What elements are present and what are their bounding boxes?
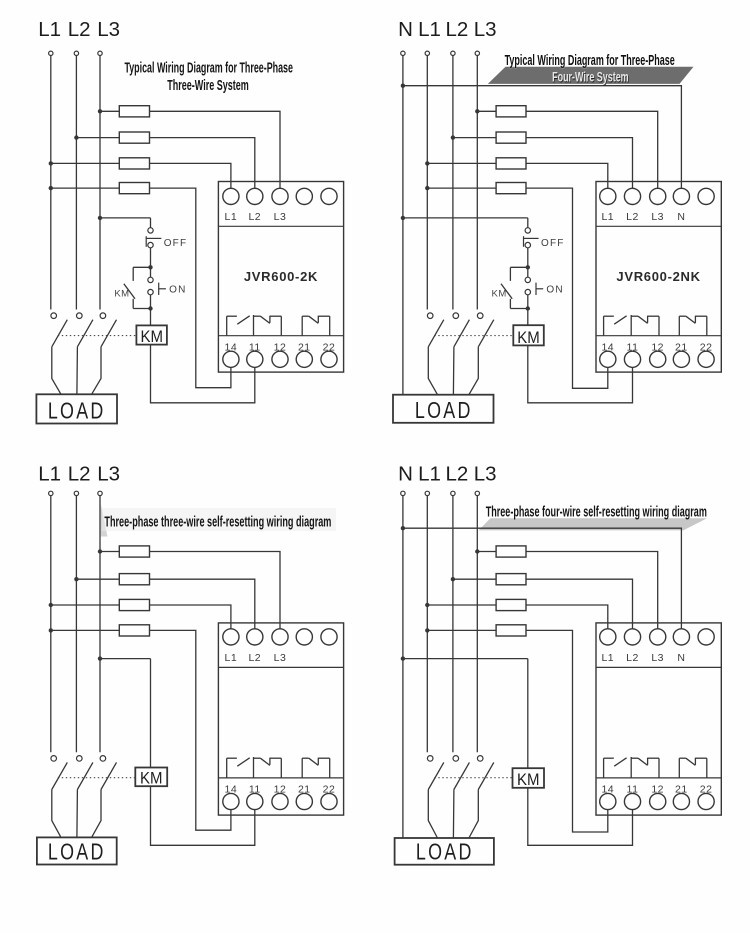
junction fuse F4 tap (D) [425,628,429,632]
auxiliary contact KM (A) [124,267,135,308]
wire pole 3 to load (A) [92,347,101,395]
svg-text:L3: L3 [274,211,287,223]
junction fuse F1 tap (C) [98,549,102,553]
junction parallel top (A) [148,265,152,269]
relay changeover contact 14-11-12 (D) [604,757,659,778]
relay input terminal 3 (D) [650,629,666,645]
relay input terminal 5 (A) [321,188,337,204]
svg-text:Three-phase three-wire self-re: Three-phase three-wire self-resetting wi… [104,515,331,531]
junction fuse F3 tap (C) [49,603,53,607]
relay input terminal 3 (B) [650,188,666,204]
relay input terminal 4 (A) [296,188,312,204]
svg-text:Typical Wiring Diagram for Thr: Typical Wiring Diagram for Three-Phase [124,60,293,76]
relay output terminal 22 (C) [321,793,337,809]
wire control tap down to coil (C) [150,659,152,768]
label supply phases (B) [398,18,497,41]
protection relay body (B) [596,182,721,373]
wire parallel bracket bottom (B) [510,308,527,310]
svg-text:L3: L3 [97,462,120,485]
title shadow wedge quadrant C [101,504,108,537]
wire parallel bracket top (B) [510,266,527,268]
relay divider top (A) [218,225,343,227]
relay contact 21-22 (C) [302,758,330,778]
supply terminal L1 (A) [49,51,53,55]
relay input terminal 2 (B) [624,188,640,204]
title banner quadrant B [488,67,694,84]
wire tap to fuse F2 (C) [76,578,119,580]
fuse F2 (B) [496,132,526,143]
fuse F4 (C) [119,625,149,636]
supply terminal N (D) [401,491,405,495]
supply terminal L3 (B) [475,51,479,55]
relay divider bottom (B) [596,335,721,337]
wire tap to fuse F3 (B) [427,162,496,164]
wire L1 phase line (B) [426,56,428,310]
relay divider bottom (D) [596,777,721,779]
supply terminal L1 (D) [425,491,429,495]
relay input terminal 4 (D) [673,629,689,645]
junction fuse F1 tap (B) [475,109,479,113]
load box (B) [393,395,494,424]
junction control tap (C) [98,656,102,660]
relay output terminal 21 (C) [296,793,312,809]
contactor main contact pole 2 (A) [77,313,93,347]
svg-text:KM: KM [140,328,163,346]
junction parallel bottom (B) [526,306,530,310]
pushbutton ON (A) [148,277,166,295]
supply terminal L2 (C) [74,491,78,495]
fuse F1 (C) [119,546,149,557]
relay input terminal 1 (B) [600,188,616,204]
wire fuse F1 to relay (B) [526,111,658,188]
relay output terminal 21 (D) [673,793,689,809]
svg-text:L2: L2 [68,462,91,485]
fuse F1 (B) [496,106,526,117]
svg-text:L1: L1 [418,18,441,41]
supply terminal N (B) [401,51,405,55]
pushbutton OFF (A) [146,228,161,248]
wire L1 phase line (A) [50,56,52,310]
wire tap to fuse F2 (B) [453,137,496,139]
svg-text:L1: L1 [601,652,614,664]
junction fuse F2 tap (A) [74,135,78,139]
wire N phase line (D) [402,496,404,838]
relay output terminal 22 (B) [698,351,714,367]
junction fuse F3 tap (A) [49,161,53,165]
relay output terminal 21 (A) [296,351,312,367]
svg-text:LOAD: LOAD [48,839,106,865]
relay input terminal 4 (B) [673,188,689,204]
supply terminal L2 (B) [451,51,455,55]
svg-text:L1: L1 [38,18,61,41]
junction fuse F3 tap (B) [425,161,429,165]
fuse F4 (B) [496,183,526,194]
relay output terminal labels (D) [601,784,712,796]
relay input terminal 1 (D) [600,629,616,645]
mechanical link dotted (A) [58,335,137,337]
fuse F3 (B) [496,158,526,169]
svg-text:KM: KM [492,289,507,300]
wire fuse F4 to relay terminal 14 (C) [150,630,231,830]
relay output terminal 11 (C) [247,793,263,809]
relay contact 21-22 (B) [679,316,707,336]
relay changeover contact 14-11-12 (C) [227,757,282,778]
fuse F2 (D) [496,574,526,585]
fuse F3 (D) [496,599,526,610]
supply terminal L2 (D) [451,491,455,495]
svg-text:Four-Wire System: Four-Wire System [552,70,629,86]
fuse F4 (D) [496,625,526,636]
relay divider top (D) [596,666,721,668]
svg-text:L2: L2 [445,462,468,485]
wire pole 3 to load (B) [469,347,478,395]
relay output terminal labels (A) [225,342,336,354]
wire L1 phase line (D) [426,496,428,753]
wire tap to fuse F4 (B) [427,187,496,189]
wire pole 2 to load (A) [76,347,79,395]
relay input terminal 1 (C) [223,629,239,645]
relay output terminal 11 (A) [247,351,263,367]
junction fuse F4 tap (B) [425,186,429,190]
svg-text:LOAD: LOAD [416,839,474,865]
relay input terminal 1 (A) [223,188,239,204]
relay output terminal 12 (B) [650,351,666,367]
contactor main contact pole 3 (D) [477,756,493,790]
wire fuse F3 to relay (B) [526,163,608,188]
relay input terminal labels (A) [225,211,287,223]
wire control tap to coil branch (A) [100,217,151,219]
svg-text:L2: L2 [626,652,639,664]
wire fuse F4 to relay terminal 14 (A) [150,188,231,388]
wire tap to fuse F1 (A) [100,110,119,112]
relay changeover contact 14-11-12 (B) [604,315,659,336]
pushbutton OFF (B) [524,228,539,248]
relay output terminal 11 (B) [624,351,640,367]
wire pole 1 to load (C) [52,790,61,838]
relay input terminal 5 (C) [321,629,337,645]
fuse F4 (A) [119,183,149,194]
svg-text:Three-phase four-wire self-res: Three-phase four-wire self-resetting wir… [486,504,707,520]
relay input terminal 3 (C) [272,629,288,645]
wire parallel bracket bottom (A) [133,308,150,310]
wire L1 phase line (C) [50,496,52,753]
protection relay body (D) [596,623,721,815]
junction control tap (B) [401,216,405,220]
relay contact 21-22 (A) [302,316,330,336]
wire pole 3 to load (C) [92,790,101,838]
wire N to relay terminal N (D) [403,528,682,629]
junction fuse F3 tap (D) [425,603,429,607]
wire tap to fuse F1 (D) [477,551,496,553]
wire fuse F3 to relay (D) [526,605,608,629]
junction N to relay N (D) [401,526,405,530]
svg-text:L1: L1 [225,652,238,664]
wire pole 1 to load (D) [428,790,437,839]
junction fuse F4 tap (C) [49,628,53,632]
svg-text:L1: L1 [418,462,441,485]
wire control tap down to coil (D) [527,659,529,769]
relay output terminal 12 (D) [650,793,666,809]
wire pole 2 to load (D) [452,790,455,839]
wire L2 phase line (A) [75,56,77,310]
wire L2 phase line (D) [452,496,454,753]
contactor main contact pole 2 (B) [453,313,469,347]
wire fuse F2 to relay (B) [526,138,633,189]
load box (C) [37,837,117,865]
relay input terminal labels (D) [601,652,685,664]
svg-text:LOAD: LOAD [415,398,473,424]
wire L3 phase line (D) [476,496,478,753]
svg-text:N: N [398,18,413,41]
junction fuse F1 tap (A) [98,109,102,113]
svg-text:L2: L2 [248,652,261,664]
wire L2 phase line (C) [75,496,77,753]
relay divider top (C) [218,666,343,668]
relay output terminal 22 (A) [321,351,337,367]
contactor coil KM (A) [136,325,167,346]
relay input terminal 5 (D) [698,629,714,645]
relay contact 21-22 (D) [679,758,707,778]
junction N to relay N (B) [401,84,405,88]
junction fuse F4 tap (A) [49,186,53,190]
wire fuse F3 to relay (A) [150,163,231,188]
mechanical link dotted (C) [58,777,136,779]
svg-text:L3: L3 [474,462,497,485]
svg-text:KM: KM [140,770,163,788]
wire pole 1 to load (B) [428,347,437,395]
svg-text:JVR600-2K: JVR600-2K [244,269,318,284]
wire parallel bracket top (A) [133,266,150,268]
supply terminal L3 (D) [475,491,479,495]
title banner quadrant D [479,518,707,530]
wire pole 2 to load (C) [76,790,79,838]
wire tap to fuse F1 (C) [100,551,119,553]
relay input terminal 2 (A) [247,188,263,204]
wire L3 phase line (A) [99,56,101,310]
wire coil to relay terminal 11 (D) [528,788,633,846]
svg-text:N: N [398,462,413,485]
relay divider top (B) [596,225,721,227]
wire tap to fuse F4 (C) [51,629,120,631]
fuse F1 (A) [119,106,149,117]
relay output terminal 11 (D) [624,793,640,809]
junction fuse F2 tap (D) [451,577,455,581]
wire tap to fuse F3 (D) [427,604,496,606]
svg-text:L2: L2 [68,18,91,41]
svg-text:L2: L2 [445,18,468,41]
junction fuse F1 tap (D) [475,549,479,553]
fuse F3 (A) [119,158,149,169]
wire OFF to parallel group (A) [150,248,152,277]
wire down to OFF button (B) [527,218,529,228]
relay divider bottom (A) [218,335,343,337]
load box (D) [395,838,494,865]
relay changeover contact 14-11-12 (A) [227,315,282,336]
relay output terminal 14 (C) [223,793,239,809]
wire control tap to coil branch (B) [403,217,528,219]
svg-text:Typical Wiring Diagram for Thr: Typical Wiring Diagram for Three-Phase [505,53,675,69]
label supply phases (C) [38,462,120,485]
relay input terminal labels (C) [225,652,287,664]
supply terminal L3 (A) [98,51,102,55]
protection relay body (C) [218,623,343,815]
label supply phases (D) [398,462,497,485]
wire tap to fuse F2 (A) [76,137,119,139]
relay output terminal labels (C) [225,784,336,796]
svg-text:N: N [677,211,685,223]
wire pole 3 to load (D) [469,790,478,839]
fuse F2 (C) [119,574,149,585]
load box (A) [36,394,117,424]
wire L2 phase line (B) [452,56,454,310]
relay divider bottom (C) [218,777,343,779]
wire control tap to coil branch (C) [100,658,151,660]
relay input terminal 5 (B) [698,188,714,204]
relay output terminal 12 (A) [272,351,288,367]
svg-text:OFF: OFF [541,238,565,249]
contactor coil KM (B) [513,325,544,347]
auxiliary contact KM (B) [501,267,512,308]
label supply phases (A) [38,18,120,41]
supply terminal L3 (C) [98,491,102,495]
relay output terminal 12 (C) [272,793,288,809]
junction control tap (A) [98,216,102,220]
contactor coil KM (C) [135,768,167,788]
contactor main contact pole 1 (A) [51,313,67,347]
contactor main contact pole 1 (C) [51,756,67,790]
relay input terminal 4 (C) [296,629,312,645]
wire to contactor coil (B) [527,295,529,325]
svg-text:LOAD: LOAD [48,398,106,424]
svg-text:JVR600-2NK: JVR600-2NK [616,269,700,284]
wire coil to relay terminal 11 (C) [151,786,255,845]
svg-text:KM: KM [517,329,540,347]
svg-text:L2: L2 [248,211,261,223]
wire to contactor coil (A) [150,295,152,326]
contactor main contact pole 1 (D) [427,756,443,790]
svg-text:OFF: OFF [164,238,188,249]
wire fuse F1 to relay (D) [526,552,658,629]
wire L3 phase line (B) [476,56,478,310]
contactor main contact pole 2 (D) [453,756,469,790]
wire tap to fuse F3 (C) [51,604,120,606]
wire tap to fuse F1 (B) [477,110,496,112]
relay input terminal 2 (D) [624,629,640,645]
svg-text:L3: L3 [274,652,287,664]
svg-text:KM: KM [114,289,129,300]
relay output terminal labels (B) [601,342,712,354]
relay input terminal 2 (C) [247,629,263,645]
junction parallel bottom (A) [148,306,152,310]
svg-text:L3: L3 [474,18,497,41]
contactor main contact pole 3 (B) [477,313,493,347]
fuse F2 (A) [119,132,149,143]
relay output terminal 14 (A) [223,351,239,367]
relay input terminal labels (B) [601,211,685,223]
wire fuse F3 to relay (C) [150,605,231,629]
svg-text:N: N [677,652,685,664]
mechanical link dotted (D) [434,777,512,779]
wire coil to relay terminal 11 (B) [528,345,633,402]
pushbutton ON (B) [525,277,543,295]
wire fuse F2 to relay (C) [150,579,255,629]
svg-text:L2: L2 [626,211,639,223]
relay output terminal 22 (D) [698,793,714,809]
contactor main contact pole 2 (C) [77,756,93,790]
supply terminal L1 (C) [49,491,53,495]
wire tap to fuse F3 (A) [51,162,120,164]
fuse F1 (D) [496,546,526,557]
svg-text:L1: L1 [38,462,61,485]
svg-text:L1: L1 [601,211,614,223]
relay input terminal 3 (A) [272,188,288,204]
mechanical link dotted (B) [434,335,513,337]
svg-text:L3: L3 [651,211,664,223]
svg-text:ON: ON [169,285,186,296]
svg-text:ON: ON [546,285,563,296]
title halo quadrant C [102,508,336,531]
wire fuse F4 to relay terminal 14 (B) [526,188,608,388]
wire N phase line (B) [402,56,404,395]
junction fuse F2 tap (C) [74,577,78,581]
svg-text:L3: L3 [651,652,664,664]
relay output terminal 14 (D) [600,793,616,809]
wire down to OFF button (A) [150,218,152,228]
wire fuse F2 to relay (D) [526,579,633,629]
contactor main contact pole 1 (B) [427,313,443,347]
svg-text:L1: L1 [225,211,238,223]
fuse F3 (C) [119,599,149,610]
svg-text:KM: KM [517,771,540,789]
wire pole 2 to load (B) [452,347,455,395]
junction fuse F2 tap (B) [451,135,455,139]
relay output terminal 21 (B) [673,351,689,367]
contactor coil KM (D) [513,768,545,789]
wire tap to fuse F2 (D) [453,578,496,580]
relay output terminal 14 (B) [600,351,616,367]
svg-text:L3: L3 [97,18,120,41]
wire coil to relay terminal 11 (A) [151,345,255,403]
wire fuse F1 to relay (A) [150,111,281,188]
wire fuse F1 to relay (C) [150,552,281,629]
junction parallel top (B) [526,265,530,269]
contactor main contact pole 3 (A) [100,313,116,347]
supply terminal L1 (B) [425,51,429,55]
wire fuse F2 to relay (A) [150,138,255,189]
wire pole 1 to load (A) [52,347,61,395]
wire control tap to coil branch (D) [403,658,528,660]
wire L3 phase line (C) [99,496,101,753]
wire tap to fuse F4 (A) [51,187,120,189]
wire tap to fuse F4 (D) [427,629,496,631]
wire N to relay terminal N (B) [403,86,682,189]
protection relay body (A) [218,182,343,373]
svg-text:Three-Wire System: Three-Wire System [167,78,249,94]
supply terminal L2 (A) [74,51,78,55]
wire fuse F4 to relay terminal 14 (D) [526,630,608,832]
wire OFF to parallel group (B) [527,248,529,277]
junction control tap (D) [401,656,405,660]
contactor main contact pole 3 (C) [100,756,116,790]
